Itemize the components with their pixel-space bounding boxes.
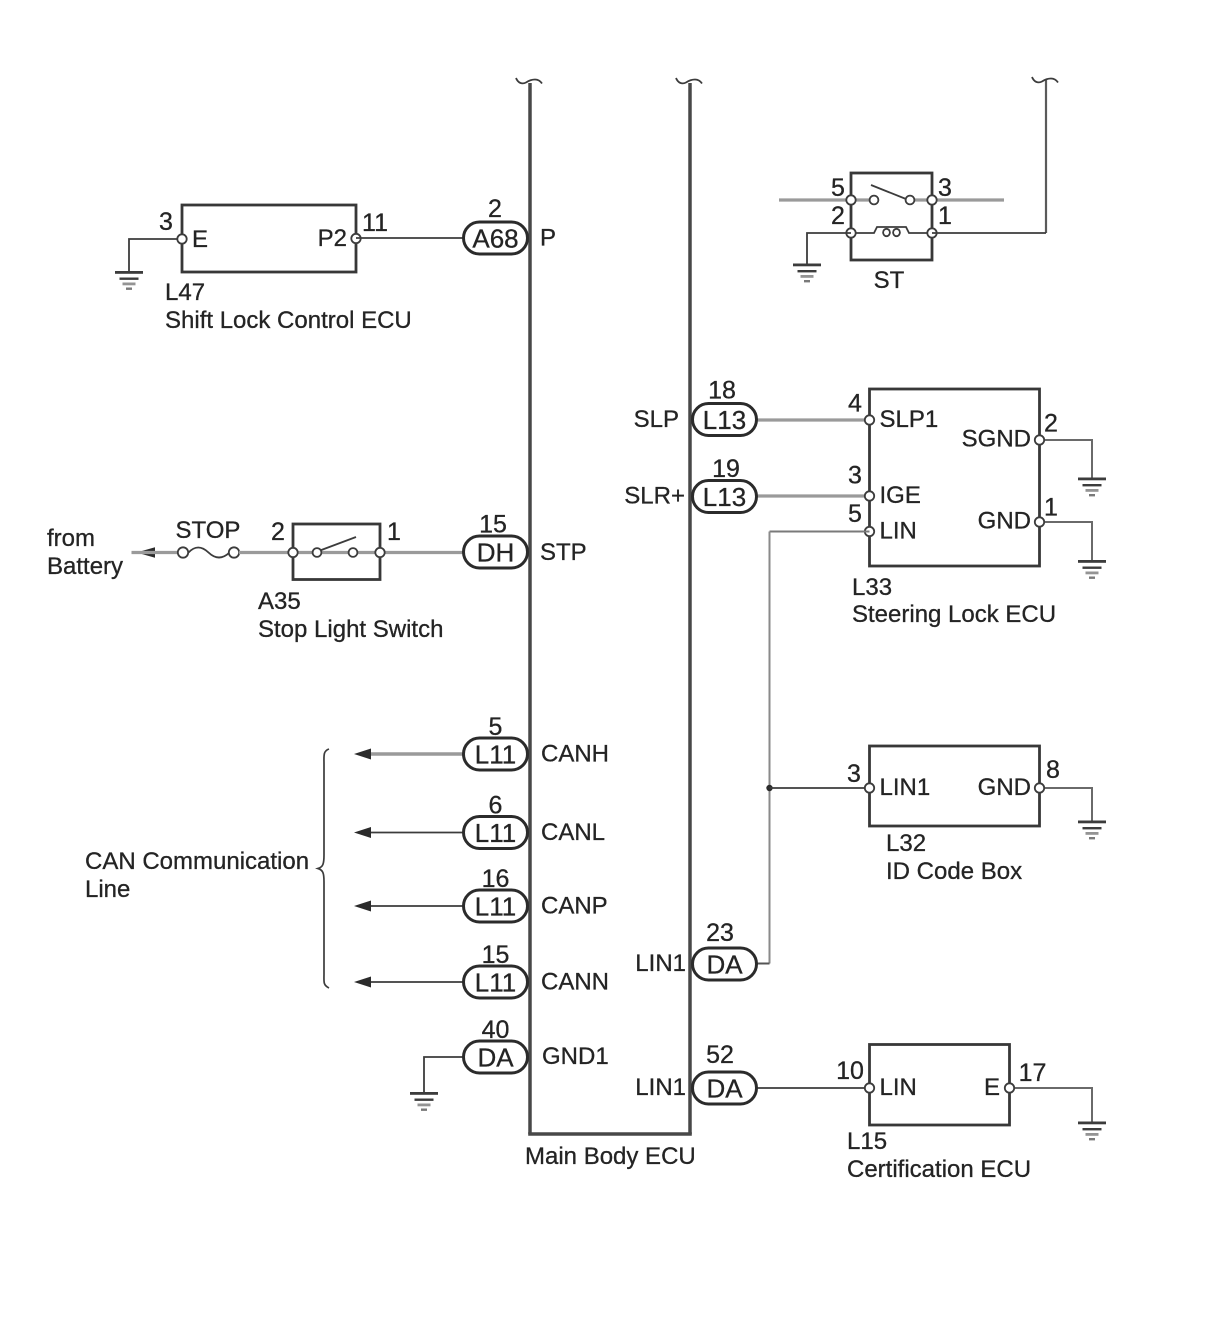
pin 1 of L33 [1035, 494, 1058, 527]
ECU L15 Certification ECU box [870, 1045, 1010, 1126]
label CAN Communication Line [85, 848, 309, 903]
svg-text:CANN: CANN [541, 969, 609, 996]
svg-text:SLR+: SLR+ [624, 483, 685, 510]
Main Body ECU left bus wire [516, 78, 542, 1134]
svg-text:L11: L11 [475, 968, 516, 998]
pin 11 of L47 [351, 209, 388, 243]
wire arrow CANP [354, 901, 464, 912]
pin 2 of ST [831, 202, 856, 238]
svg-text:L33: L33 [852, 574, 892, 601]
wire junction vertical [769, 532, 771, 964]
svg-text:GND: GND [978, 774, 1031, 801]
fuse STOP [178, 547, 239, 557]
svg-text:CANP: CANP [541, 893, 608, 920]
connector L11 CANN [464, 966, 528, 998]
svg-text:DA: DA [477, 1043, 514, 1073]
svg-text:5: 5 [848, 500, 862, 528]
connector L11 CANP [464, 890, 528, 922]
svg-text:10: 10 [836, 1057, 864, 1085]
svg-text:L47: L47 [165, 279, 205, 306]
svg-text:CANL: CANL [541, 819, 605, 846]
svg-text:LIN1: LIN1 [635, 1074, 686, 1101]
svg-text:19: 19 [712, 455, 740, 483]
Main Body ECU right bus wire [676, 78, 702, 1134]
svg-text:L11: L11 [475, 818, 516, 848]
svg-text:CAN Communication: CAN Communication [85, 848, 309, 875]
svg-text:5: 5 [831, 174, 845, 202]
svg-text:ID Code Box: ID Code Box [886, 858, 1022, 885]
wire DA to ground [424, 1057, 464, 1092]
ground at L47 [115, 271, 143, 290]
ECU L33 Steering Lock ECU box [870, 389, 1040, 566]
pin 2 of A35 [271, 518, 298, 557]
ground at GND1 [410, 1092, 438, 1111]
wire GND to ground [1040, 522, 1093, 560]
ground at L33 GND [1078, 560, 1106, 579]
pin 2 of L33 [1035, 410, 1058, 445]
svg-text:1: 1 [1044, 494, 1058, 522]
pin 8 of L32 [1035, 756, 1060, 793]
svg-text:1: 1 [387, 518, 401, 546]
wire ST pin 1 to branch [932, 232, 1046, 234]
svg-text:LIN: LIN [880, 518, 917, 545]
svg-text:CANH: CANH [541, 741, 609, 768]
wire ST branch vertical [1032, 77, 1058, 233]
wire DA 52 to L15 LIN [757, 1087, 870, 1089]
svg-text:18: 18 [708, 377, 736, 405]
svg-text:Steering Lock ECU: Steering Lock ECU [852, 601, 1056, 628]
wire arrow CANL [354, 827, 464, 838]
ground at ST [793, 264, 821, 283]
svg-text:4: 4 [848, 390, 862, 418]
svg-text:17: 17 [1019, 1059, 1047, 1087]
svg-text:2: 2 [831, 202, 845, 230]
svg-text:15: 15 [479, 511, 507, 539]
svg-text:STOP: STOP [176, 517, 241, 544]
switch A35 contacts and blade [313, 537, 358, 557]
connector DA 23 [693, 948, 757, 980]
pin 3 of L47 [159, 208, 187, 244]
svg-text:LIN1: LIN1 [880, 774, 931, 801]
pin 5 of L33 [848, 500, 874, 536]
svg-text:ST: ST [874, 267, 905, 294]
Main Body ECU bottom edge wire [528, 1132, 692, 1136]
svg-text:52: 52 [706, 1041, 734, 1069]
svg-text:L11: L11 [475, 740, 516, 770]
connector L13 SLP [693, 404, 757, 436]
relay ST coil [851, 227, 932, 236]
wire L15 E to ground [1010, 1088, 1093, 1122]
junction LIN1 [766, 785, 772, 791]
svg-text:1: 1 [938, 202, 952, 230]
ground at L15 [1078, 1122, 1106, 1141]
pin 1 of A35 [375, 518, 401, 557]
wire P2 to connector A68 [356, 237, 464, 239]
relay ST box [851, 173, 932, 260]
svg-text:Battery: Battery [47, 553, 123, 580]
svg-text:SLP: SLP [634, 406, 679, 433]
relay ST switch contacts [870, 185, 915, 204]
svg-text:GND1: GND1 [542, 1043, 609, 1070]
arrow to battery [137, 547, 156, 558]
svg-text:L13: L13 [703, 482, 746, 512]
svg-text:from: from [47, 525, 95, 552]
pin 5 of ST [831, 174, 856, 205]
svg-text:SLP1: SLP1 [880, 406, 939, 433]
ECU L32 ID Code Box [870, 746, 1040, 826]
pin 3 of L32 [847, 760, 874, 793]
svg-text:A35: A35 [258, 588, 301, 615]
switch A35 box [293, 524, 380, 580]
wire ground from L47 pin E [129, 239, 182, 271]
svg-text:DH: DH [477, 538, 515, 568]
wire L32 GND to ground [1040, 788, 1093, 821]
connector DA 52 [693, 1072, 757, 1104]
wire L13 to IGE [757, 494, 870, 497]
svg-text:2: 2 [488, 195, 502, 223]
svg-text:E: E [192, 226, 208, 253]
svg-text:3: 3 [159, 208, 173, 236]
svg-text:8: 8 [1046, 756, 1060, 784]
svg-text:A68: A68 [472, 224, 518, 254]
svg-text:3: 3 [847, 760, 861, 788]
svg-text:IGE: IGE [880, 482, 921, 509]
svg-text:2: 2 [271, 518, 285, 546]
svg-text:SGND: SGND [962, 426, 1031, 453]
wire gray inside relay ST [851, 198, 932, 201]
svg-text:3: 3 [938, 174, 952, 202]
svg-text:Shift Lock Control ECU: Shift Lock Control ECU [165, 307, 412, 334]
svg-text:3: 3 [848, 462, 862, 490]
svg-text:Line: Line [85, 876, 130, 903]
svg-text:DA: DA [706, 1074, 743, 1104]
svg-text:11: 11 [362, 209, 388, 237]
svg-text:Stop Light Switch: Stop Light Switch [258, 616, 443, 643]
svg-text:Certification ECU: Certification ECU [847, 1156, 1031, 1183]
pin 4 of L33 [848, 390, 874, 425]
connector DA GND1 [464, 1041, 528, 1073]
wire ST pin 2 to ground [807, 233, 851, 264]
wire battery to fuse [132, 551, 179, 554]
connector A68 [464, 222, 528, 254]
svg-text:P2: P2 [318, 225, 347, 252]
pin 17 of L15 [1005, 1059, 1047, 1093]
pin 3 of L33 [848, 462, 874, 501]
svg-text:2: 2 [1044, 410, 1058, 438]
wire SGND to ground [1040, 440, 1093, 478]
svg-text:23: 23 [706, 919, 734, 947]
connector L11 CANL [464, 817, 528, 849]
ground at L32 [1078, 821, 1106, 840]
label from Battery [47, 525, 123, 580]
svg-text:L13: L13 [703, 405, 746, 435]
svg-text:L11: L11 [475, 892, 516, 922]
wire gray right of relay ST [932, 198, 1004, 201]
brace CAN group [318, 749, 329, 988]
wire fuse to switch A35 [239, 551, 293, 554]
wire gray left of relay ST [779, 198, 851, 201]
svg-text:LIN: LIN [880, 1074, 917, 1101]
pin 10 of L15 [836, 1057, 874, 1093]
wire arrow CANN [354, 977, 464, 988]
wire junction to DA 23 [757, 963, 770, 965]
svg-text:DA: DA [706, 950, 743, 980]
svg-text:Main Body ECU: Main Body ECU [525, 1143, 696, 1170]
wire L13 to SLP1 [757, 418, 870, 421]
ECU L47 Shift Lock Control ECU box [182, 205, 356, 272]
connector DH [464, 536, 528, 568]
ground at SGND [1078, 478, 1106, 497]
wire switch A35 to connector DH [380, 551, 464, 554]
svg-text:LIN1: LIN1 [635, 950, 686, 977]
svg-text:P: P [540, 225, 556, 252]
svg-text:L32: L32 [886, 830, 926, 857]
wire junction to L32 LIN1 [770, 787, 870, 789]
svg-text:STP: STP [540, 539, 587, 566]
svg-text:L15: L15 [847, 1128, 887, 1155]
wire LIN to junction [770, 531, 870, 533]
connector L11 CANH [464, 738, 528, 770]
svg-text:GND: GND [978, 508, 1031, 535]
pin 1 of ST [927, 202, 952, 238]
svg-text:E: E [984, 1074, 1000, 1101]
pin 3 of ST [927, 174, 952, 205]
connector L13 SLR+ [693, 481, 757, 513]
wire through switch A35 [293, 551, 380, 554]
wire arrow CANH [354, 749, 464, 760]
